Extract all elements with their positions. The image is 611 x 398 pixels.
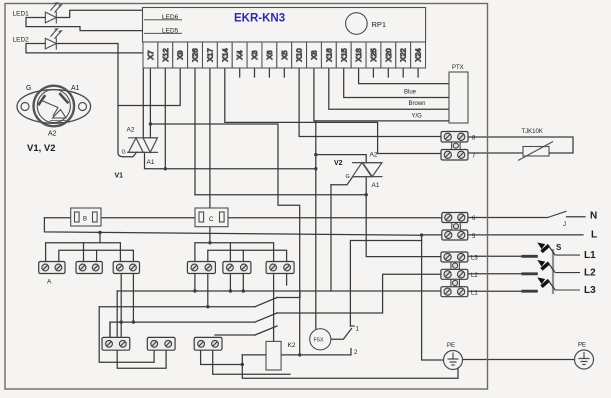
- svg-text:A1: A1: [147, 159, 155, 166]
- svg-text:X15: X15: [339, 48, 348, 61]
- svg-text:V2: V2: [334, 160, 343, 167]
- svg-text:G: G: [26, 85, 31, 92]
- svg-text:N: N: [590, 211, 597, 222]
- svg-text:Blue: Blue: [404, 90, 417, 96]
- svg-text:X20: X20: [384, 48, 393, 61]
- svg-text:X12: X12: [161, 48, 170, 61]
- svg-text:Brown: Brown: [409, 101, 426, 107]
- svg-text:A: A: [47, 279, 52, 286]
- svg-text:7: 7: [472, 154, 476, 160]
- svg-text:F5X: F5X: [314, 338, 324, 344]
- svg-text:Y/G: Y/G: [412, 114, 423, 120]
- svg-text:PE: PE: [578, 343, 586, 349]
- svg-text:A1: A1: [71, 85, 80, 92]
- svg-text:TJK10K: TJK10K: [522, 129, 543, 135]
- svg-text:X4: X4: [235, 50, 244, 59]
- svg-text:X26: X26: [191, 48, 200, 61]
- svg-text:L1: L1: [584, 250, 596, 261]
- svg-text:L1: L1: [471, 291, 478, 297]
- svg-text:X18: X18: [354, 48, 363, 61]
- svg-text:X16: X16: [324, 48, 333, 61]
- svg-text:RP1: RP1: [372, 20, 387, 29]
- svg-text:X7: X7: [146, 50, 155, 59]
- svg-text:C: C: [209, 217, 214, 223]
- svg-text:X10: X10: [295, 48, 304, 61]
- svg-text:PTX: PTX: [452, 65, 464, 71]
- svg-text:L2: L2: [471, 273, 478, 279]
- svg-text:X3: X3: [250, 50, 259, 59]
- svg-text:X17: X17: [205, 48, 214, 61]
- svg-text:1: 1: [356, 327, 360, 333]
- svg-text:A2: A2: [48, 131, 57, 138]
- svg-text:X8: X8: [310, 50, 319, 59]
- svg-text:X5: X5: [280, 50, 289, 59]
- svg-text:L3: L3: [584, 285, 596, 296]
- svg-text:L: L: [591, 230, 597, 241]
- svg-text:J: J: [563, 222, 566, 228]
- svg-text:LED2: LED2: [13, 37, 30, 44]
- svg-text:X24: X24: [414, 48, 423, 61]
- svg-text:K2: K2: [288, 342, 296, 349]
- svg-text:A2: A2: [127, 127, 135, 134]
- svg-text:PE: PE: [447, 343, 455, 349]
- svg-text:X14: X14: [220, 48, 229, 61]
- svg-text:X6: X6: [265, 50, 274, 59]
- svg-text:X25: X25: [369, 48, 378, 61]
- svg-text:A1: A1: [372, 182, 380, 189]
- svg-text:G: G: [346, 174, 350, 180]
- svg-text:LED1: LED1: [13, 11, 30, 18]
- svg-text:B: B: [83, 217, 87, 223]
- svg-text:V1: V1: [115, 173, 124, 180]
- svg-text:EKR-KN3: EKR-KN3: [234, 13, 285, 25]
- svg-text:X9: X9: [176, 50, 185, 59]
- svg-text:G: G: [122, 150, 126, 156]
- svg-text:L3: L3: [471, 256, 478, 262]
- svg-text:X22: X22: [399, 48, 408, 61]
- svg-text:S: S: [556, 243, 562, 252]
- svg-text:L2: L2: [584, 268, 596, 279]
- svg-text:2: 2: [354, 350, 358, 356]
- svg-text:V1, V2: V1, V2: [27, 143, 56, 154]
- svg-text:A2: A2: [370, 152, 378, 159]
